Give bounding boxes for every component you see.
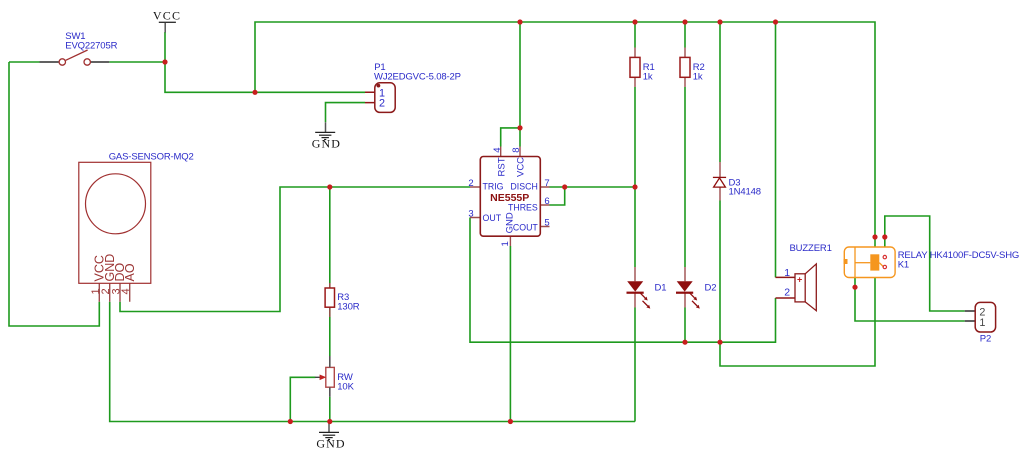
svg-text:AO: AO xyxy=(123,263,137,281)
svg-text:1: 1 xyxy=(979,317,985,329)
svg-text:D2: D2 xyxy=(705,283,717,294)
svg-text:4: 4 xyxy=(120,288,132,294)
svg-text:GND: GND xyxy=(312,136,341,150)
svg-text:130R: 130R xyxy=(337,302,359,313)
svg-text:2: 2 xyxy=(468,178,473,189)
svg-text:2: 2 xyxy=(784,287,790,299)
svg-text:RELAY HK4100F-DC5V-SHG: RELAY HK4100F-DC5V-SHG xyxy=(898,250,1019,261)
svg-text:7: 7 xyxy=(544,178,549,189)
svg-text:+: + xyxy=(797,275,802,285)
svg-text:K1: K1 xyxy=(898,259,909,270)
svg-text:GAS-SENSOR-MQ2: GAS-SENSOR-MQ2 xyxy=(109,151,194,162)
svg-text:WJ2EDGVC-5.08-2P: WJ2EDGVC-5.08-2P xyxy=(374,72,461,83)
svg-text:COUT: COUT xyxy=(513,222,539,232)
svg-text:DISCH: DISCH xyxy=(510,182,537,192)
svg-text:1k: 1k xyxy=(693,71,703,82)
svg-text:1N4148: 1N4148 xyxy=(729,187,761,198)
svg-text:TRIG: TRIG xyxy=(483,182,504,192)
svg-text:EVQ22705R: EVQ22705R xyxy=(65,40,117,51)
svg-text:3: 3 xyxy=(468,209,473,220)
svg-text:1: 1 xyxy=(784,267,790,279)
svg-text:VCC: VCC xyxy=(516,157,527,177)
svg-text:OUT: OUT xyxy=(483,213,502,223)
svg-text:P2: P2 xyxy=(980,333,991,344)
svg-text:GND: GND xyxy=(316,437,345,451)
svg-text:D1: D1 xyxy=(655,283,667,294)
svg-text:8: 8 xyxy=(511,147,522,152)
svg-text:1: 1 xyxy=(500,241,511,246)
svg-text:6: 6 xyxy=(544,196,549,207)
svg-text:NE555P: NE555P xyxy=(490,192,529,204)
svg-text:BUZZER1: BUZZER1 xyxy=(790,243,832,254)
svg-text:RST: RST xyxy=(496,157,507,176)
svg-text:GND: GND xyxy=(505,212,516,233)
svg-text:1k: 1k xyxy=(643,71,653,82)
svg-text:4: 4 xyxy=(492,147,503,152)
svg-text:10K: 10K xyxy=(337,382,354,393)
svg-text:VCC: VCC xyxy=(153,9,181,23)
svg-text:THRES: THRES xyxy=(508,202,538,212)
svg-text:2: 2 xyxy=(379,97,385,109)
svg-text:5: 5 xyxy=(544,217,549,228)
